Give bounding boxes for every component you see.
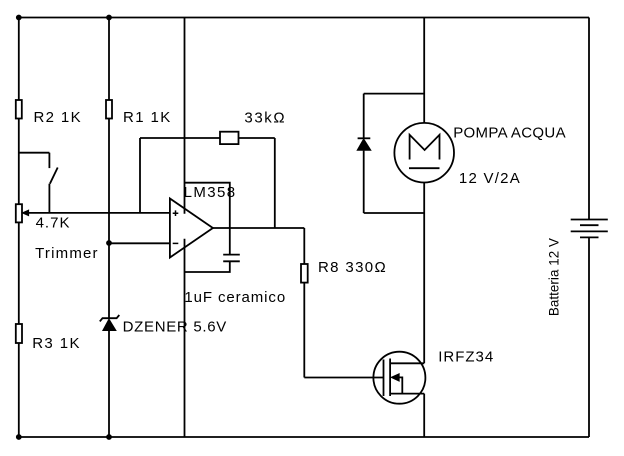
diode D2 cathode bar (358, 137, 371, 139)
wire top +12V rail (19, 17, 589, 19)
switch SW1 upper contact (48, 153, 50, 168)
svg-text:33kΩ: 33kΩ (244, 109, 286, 126)
svg-text:R8 330Ω: R8 330Ω (318, 259, 387, 276)
wire flyback branch bottom (364, 212, 425, 214)
wire battery column top (588, 18, 590, 220)
wire switch branch horizontal (19, 152, 50, 154)
node top rail left junction (16, 15, 22, 21)
wire feedback to 33k resistor (140, 137, 220, 139)
battery B1 plate long 1 (571, 219, 608, 221)
transistor Q1 source lead (390, 393, 424, 395)
capacitor C1 1uF top plate (223, 254, 240, 256)
diode D2 body (358, 140, 370, 150)
node ground rail zener junction (106, 434, 112, 440)
capacitor C1 1uF bottom plate (223, 260, 240, 262)
wire feedback down to output (274, 138, 276, 228)
battery B1 plate short 2 (580, 236, 599, 238)
wire trimmer wiper to op-amp non-inverting input (25, 212, 170, 214)
resistor 33k (220, 132, 239, 144)
wire R2 to trimmer (18, 119, 20, 205)
resistor R1 (106, 100, 112, 119)
wire battery column bottom (588, 237, 590, 437)
resistor R3 (16, 324, 22, 343)
wire source to ground rail (423, 394, 425, 437)
wire flyback branch top (364, 93, 425, 95)
wire diode to flyback bottom (363, 151, 365, 213)
svg-text:POMPA ACQUA: POMPA ACQUA (453, 124, 566, 141)
node top rail R1 junction (106, 15, 112, 21)
wire left column top (rail to R2) (18, 18, 20, 101)
svg-text:R3 1K: R3 1K (32, 335, 81, 352)
wire 33k resistor to output column (239, 137, 275, 139)
resistor R8 330 (301, 264, 308, 283)
svg-text:Batteria 12 V: Batteria 12 V (546, 238, 561, 316)
transistor Q1 gate bar (383, 360, 385, 397)
wire zener to ground rail (108, 331, 110, 437)
svg-text:IRFZ34: IRFZ34 (438, 349, 494, 366)
wire inverting input reference (109, 242, 170, 244)
svg-text:Trimmer: Trimmer (35, 245, 99, 262)
switch SW1 blade (50, 168, 58, 184)
wire flyback top to diode (363, 94, 365, 139)
wire V+ branch to bypass cap (185, 183, 230, 255)
svg-text:DZENER 5.6V: DZENER 5.6V (123, 319, 227, 336)
op-amp U1 LM358 body (170, 199, 213, 258)
wire R1 to zener (108, 119, 110, 319)
transistor Q1 drain lead (390, 362, 424, 364)
wire R8 to gate level (303, 283, 305, 378)
zener D1 body (103, 320, 115, 330)
wire trimmer to R3 (18, 222, 20, 324)
trimmer wiper arrow (23, 210, 29, 215)
transistor Q1 body stub (399, 377, 403, 393)
wire output down to R8 (303, 228, 305, 264)
transistor Q1 channel bar (389, 359, 391, 397)
wire motor column top (423, 18, 425, 123)
svg-text:12 V/2A: 12 V/2A (459, 170, 521, 187)
wire V- supply column to ground (184, 239, 186, 437)
battery B1 plate long 2 (571, 230, 608, 232)
wire motor to MOSFET drain (423, 183, 425, 364)
wire V+ supply column (184, 18, 186, 214)
wire feedback tap vertical (139, 138, 141, 213)
transistor Q1 IRFZ34 body circle (373, 352, 425, 404)
node ground rail left junction (16, 434, 22, 440)
zener D1 cathode bar (100, 315, 120, 321)
wire bottom ground rail (19, 436, 589, 438)
node reference junction (106, 240, 112, 246)
motor M1 letter M (410, 135, 440, 160)
wire to MOSFET gate (304, 377, 383, 379)
svg-text:LM358: LM358 (184, 184, 237, 201)
op-amp plus sign (173, 210, 179, 216)
resistor R2 (16, 100, 22, 119)
motor M1 pump circle (394, 123, 454, 183)
wire cap to V- column (185, 261, 230, 272)
wire R1 column top (rail to R1) (108, 18, 110, 101)
wire R3 to ground rail (18, 343, 20, 437)
transistor Q1 body arrow (392, 374, 399, 381)
motor M1 underline (409, 167, 440, 169)
wire switch to wiper line (48, 184, 50, 213)
svg-text:1uF ceramico: 1uF ceramico (184, 289, 286, 306)
svg-text:4.7K: 4.7K (36, 215, 71, 232)
battery B1 plate short 1 (580, 224, 599, 226)
wire op-amp output (213, 227, 304, 229)
trimmer P1 4.7K body (16, 204, 22, 222)
svg-text:R1 1K: R1 1K (123, 109, 172, 126)
op-amp minus sign (173, 242, 179, 244)
svg-text:R2 1K: R2 1K (34, 109, 82, 126)
